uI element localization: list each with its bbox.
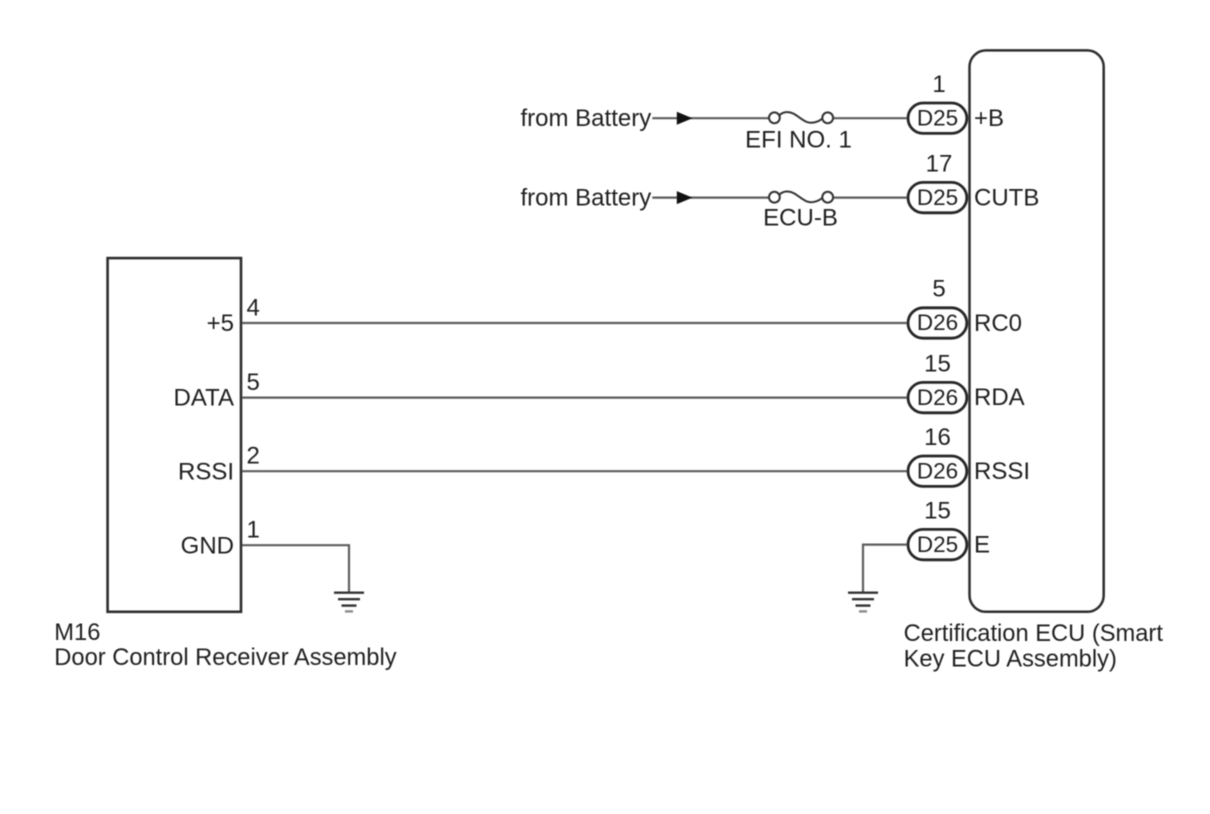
svg-text:RC0: RC0	[974, 310, 1022, 337]
svg-text:CUTB: CUTB	[974, 184, 1039, 211]
svg-text:17: 17	[926, 150, 953, 177]
svg-text:ECU-B: ECU-B	[763, 205, 838, 232]
svg-text:D26: D26	[917, 385, 958, 410]
svg-text:5: 5	[932, 275, 945, 302]
svg-text:D25: D25	[917, 532, 958, 557]
svg-text:RSSI: RSSI	[178, 458, 234, 485]
svg-text:D26: D26	[917, 458, 958, 483]
svg-text:Door Control Receiver Assembly: Door Control Receiver Assembly	[54, 645, 396, 671]
svg-text:D26: D26	[917, 310, 958, 335]
svg-text:from Battery: from Battery	[521, 105, 652, 132]
svg-text:M16: M16	[54, 620, 100, 646]
svg-text:16: 16	[924, 424, 951, 451]
svg-text:DATA: DATA	[174, 385, 234, 412]
svg-text:from Battery: from Battery	[521, 185, 652, 212]
svg-text:2: 2	[247, 443, 260, 470]
svg-text:RDA: RDA	[974, 384, 1025, 411]
svg-text:GND: GND	[181, 532, 234, 559]
svg-text:1: 1	[932, 71, 945, 98]
svg-text:D25: D25	[917, 105, 958, 130]
svg-text:15: 15	[924, 350, 951, 377]
svg-text:D25: D25	[917, 185, 958, 210]
svg-text:Certification ECU (Smart: Certification ECU (Smart	[904, 621, 1164, 647]
svg-text:EFI NO. 1: EFI NO. 1	[745, 127, 852, 154]
svg-text:RSSI: RSSI	[974, 458, 1030, 485]
svg-text:+5: +5	[207, 310, 234, 337]
svg-text:15: 15	[924, 497, 951, 524]
svg-text:5: 5	[247, 369, 260, 396]
svg-text:Key ECU Assembly): Key ECU Assembly)	[904, 646, 1117, 672]
svg-text:4: 4	[247, 295, 260, 322]
svg-text:1: 1	[247, 517, 260, 544]
svg-text:E: E	[974, 531, 990, 558]
svg-text:+B: +B	[974, 105, 1004, 132]
